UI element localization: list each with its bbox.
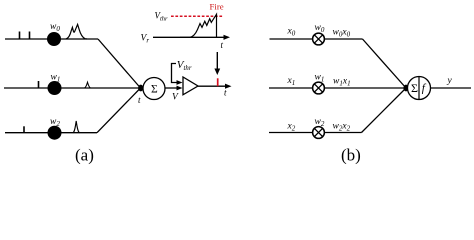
svg-text:(a): (a) [75,146,94,165]
wire diagonal x2 to junction [362,88,407,133]
input spike tick 0b [29,32,31,40]
wire x1 after multiplier [325,87,408,89]
small EPSP bump line 1 [85,82,91,88]
wire diagonal 0 to junction [98,39,141,88]
arrowhead Vthr input [177,80,183,85]
multiplier circle M1 [313,82,325,94]
Vthr bracket wire [172,64,180,83]
junction dot [138,85,143,92]
summation circle U1 [143,78,165,100]
sharp spike waveform line 2 [73,121,80,133]
svg-text:(b): (b) [341,146,361,165]
synapse dot w0 [47,32,61,46]
input spike tick 0a [19,32,21,40]
neuron circle U2 [408,77,431,100]
input spike tick 1 [38,81,40,88]
threshold dashed red line [171,15,223,17]
synapse dot w2 [48,126,62,140]
svg-text:Σ: Σ [151,83,158,95]
wire input line x0 [270,38,313,40]
multiplier cross M1 [314,84,322,92]
svg-text:y: y [447,76,453,86]
wire input line x1 [269,87,312,89]
output arrowhead [225,84,232,89]
membrane potential graph axis [153,36,227,38]
wire sum to comparator [165,87,180,89]
multiplier cross M0 [314,35,322,43]
divider line [418,77,420,100]
synapse dot w1 [48,81,62,95]
svg-text:Fire: Fire [210,2,224,12]
wire diagonal 2 to junction [97,88,141,133]
svg-text:Σ: Σ [411,81,418,95]
output spike red tick [217,78,219,86]
wire input line 1 [4,87,143,89]
wire input line x2 [269,132,312,134]
multiplier circle M0 [313,33,325,45]
fire indicator arrow down [216,52,218,71]
comparator triangle [183,77,198,95]
wire input line 0 [5,38,98,40]
graph axis arrowhead [224,35,231,40]
multiplier cross M2 [314,128,322,136]
junction dot b [403,85,408,92]
output wire [198,85,228,87]
multiplier circle M2 [313,127,325,139]
arrowhead V input [177,86,183,91]
wire input line 2 [5,132,97,134]
output wire y [431,87,472,89]
input spike tick 2 [23,126,25,132]
membrane potential curve [180,14,217,37]
arrowhead down [214,69,220,76]
wire x0 after multiplier [325,38,363,40]
wire diagonal x0 to junction [363,39,407,88]
wire x2 after multiplier [325,132,362,134]
EPSP waveform line 0 [66,24,87,39]
